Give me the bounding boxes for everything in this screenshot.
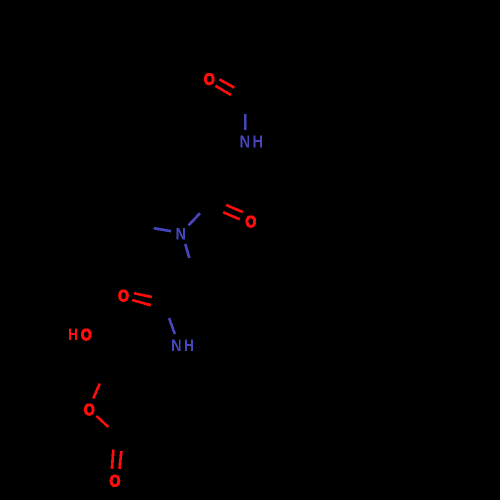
bond C4-N3 blue half	[169, 318, 175, 334]
bond C1=O1 upper red half	[219, 79, 234, 87]
oxygen O1 (top amide carbonyl O)	[204, 73, 214, 84]
bond O4-C5 red half (ring O up)	[93, 384, 99, 399]
nitrogen N1 (top amide NH)	[241, 135, 262, 147]
bond C1-N1 blue half	[244, 114, 247, 130]
bond C2=O2 lower red half	[223, 212, 240, 219]
bond C2=O2 upper red half	[226, 205, 243, 212]
bond N2-C3 blue half (down chain)	[185, 244, 189, 258]
bond C1=O1 lower red half	[215, 86, 231, 95]
bond C6=O5 right red half	[119, 451, 121, 469]
oxygen O5 (lactone carbonyl O)	[110, 475, 120, 486]
bond C4=O3 lower red half	[132, 300, 151, 305]
bond N2-CH3 blue half (methyl)	[154, 228, 171, 231]
nitrogen N2 (central tertiary amide N)	[177, 228, 185, 240]
nitrogen N3 (second amide NH)	[172, 339, 193, 351]
hydroxyl HO (on lactone ring C5)	[69, 328, 91, 340]
oxygen O3 (second amide carbonyl O)	[119, 290, 129, 301]
bond C4=O3 upper red half	[134, 293, 152, 297]
bond O4-C6 red half (ring O down-right)	[96, 416, 108, 427]
bond C6=O5 left red half	[112, 449, 114, 468]
oxygen O2 (central amide carbonyl O)	[246, 216, 256, 227]
bond N2-C2 blue half (to carbonyl)	[189, 213, 201, 225]
oxygen O4 (lactone ring O)	[84, 404, 94, 415]
